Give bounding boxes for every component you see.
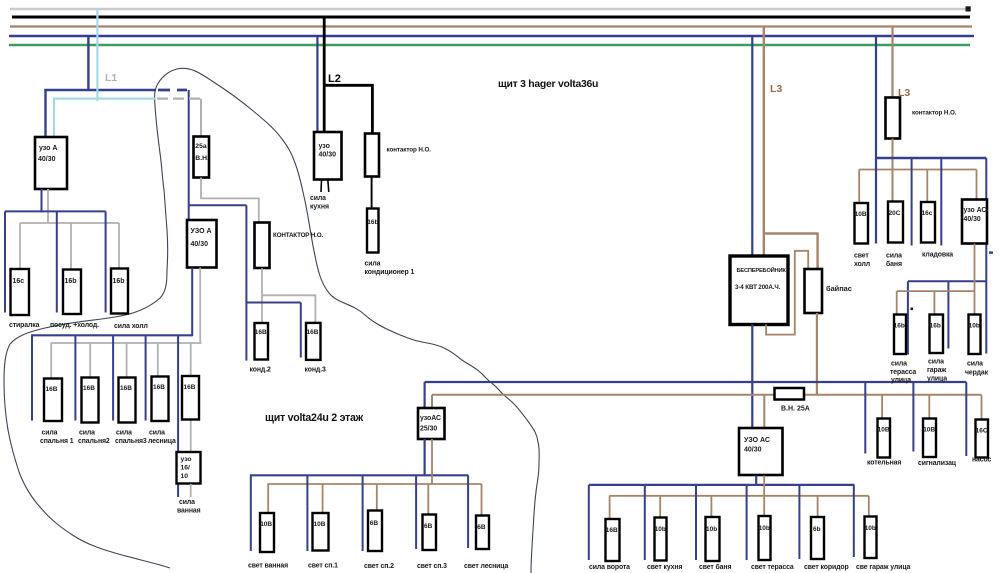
svg-text:свет баня: свет баня — [699, 563, 731, 571]
breaker 16B конд.2 — [250, 323, 272, 374]
wire blue UPS to UZO AC — [751, 325, 753, 429]
contactor KONTAKTOR N.O. — [255, 223, 324, 269]
breaker 16B ванная — [182, 376, 199, 420]
wire blue main bus 2nd floor — [425, 381, 967, 383]
wire brown baypas to bus — [816, 313, 818, 394]
svg-text:конд.3: конд.3 — [305, 367, 327, 374]
wire black L2 branch — [324, 85, 372, 133]
wire brown L3 to baypas — [764, 234, 818, 270]
wire lightblue drop from gray bus — [96, 9, 98, 101]
wire brown kontaktor2 out — [892, 139, 894, 202]
svg-text:40/30: 40/30 — [191, 241, 209, 248]
contactor контактор Н.О. (L2) — [365, 134, 431, 177]
RCD узоАС 25/30 — [418, 408, 445, 439]
svg-text:сила: сила — [891, 361, 907, 368]
svg-text:10: 10 — [181, 473, 189, 480]
wire brown groupB drop 1 — [896, 291, 898, 314]
wire brown uzoAC40 out — [763, 476, 765, 517]
wire blue row1 bus — [5, 210, 106, 212]
svg-text:кладовка: кладовка — [922, 252, 953, 259]
wire brown L3-2 drop — [891, 27, 893, 98]
svg-text:16с: 16с — [13, 278, 25, 285]
svg-text:10b: 10b — [706, 526, 717, 533]
svg-text:свет сп.2: свет сп.2 — [364, 563, 394, 570]
bus brown — [10, 25, 972, 27]
breaker 10B свет сп.1 — [308, 513, 338, 570]
svg-text:свет терасса: свет терасса — [751, 564, 794, 571]
wire gray row1 drop 2 — [70, 223, 72, 270]
breaker 16B сила спальня2 — [78, 378, 110, 446]
breaker 16B сила ворота — [589, 519, 630, 571]
wire pins uzo кухня — [321, 180, 329, 192]
svg-text:10В: 10В — [314, 521, 326, 528]
svg-text:16/: 16/ — [181, 465, 191, 472]
svg-text:сигнализац: сигнализац — [918, 460, 957, 467]
svg-text:40/30: 40/30 — [38, 156, 56, 163]
wire blue bottom drop 5 — [798, 485, 800, 559]
wire brown uzoAC25 feed — [431, 395, 433, 408]
svg-text:улица: улица — [927, 376, 947, 383]
wire blue kond feed horizontal — [189, 204, 247, 206]
svg-text:све гараж улица: све гараж улица — [856, 564, 911, 571]
svg-text:6В: 6В — [370, 520, 379, 527]
svg-text:20С: 20С — [889, 210, 901, 217]
svg-text:L3: L3 — [770, 83, 782, 95]
wire blue groupC drop 1 — [864, 382, 866, 454]
wire blue dashed across cloud — [158, 89, 187, 92]
svg-text:10b: 10b — [865, 525, 876, 532]
svg-text:сила: сила — [310, 195, 326, 202]
wire blue row2 drop 5 — [177, 335, 179, 497]
wire brown uzoAC-TR out — [974, 244, 976, 315]
svg-text:узо АС: узо АС — [964, 207, 987, 214]
breaker 6b свет коридор — [804, 517, 849, 571]
wire blue lighting drop 4 — [415, 475, 417, 549]
svg-text:сила: сила — [967, 361, 983, 368]
wire blue lighting drop 1 — [250, 475, 252, 551]
wire brown groupC drop 1 — [881, 395, 883, 419]
wire brown UPS out loop — [766, 251, 808, 335]
bus L black — [12, 16, 970, 19]
breaker 16b сила холл — [111, 269, 148, 331]
svg-text:16В: 16В — [46, 386, 58, 393]
svg-text:6В: 6В — [477, 524, 486, 531]
svg-text:котельная: котельная — [867, 460, 901, 467]
svg-text:узо: узо — [319, 143, 330, 150]
wire blue lighting drop 5 — [467, 475, 469, 548]
svg-text:свет коридор: свет коридор — [804, 564, 849, 571]
wire blue uzoAC25 feed — [424, 382, 426, 408]
wire blue row2 drop 3 — [112, 335, 114, 420]
svg-text:сила: сила — [928, 359, 944, 366]
wire blue groupA bus — [876, 157, 986, 159]
svg-text:L2: L2 — [328, 73, 341, 85]
wire brown lighting drop 1 — [267, 484, 269, 513]
wire black L2 drop — [323, 17, 326, 132]
wire brown groupC drop 3 — [981, 395, 983, 420]
svg-text:сила: сила — [149, 430, 165, 437]
wire gray row1 drop 3 — [118, 223, 120, 269]
svg-text:контактор Н.О.: контактор Н.О. — [912, 110, 957, 117]
wire blue drop to groupA — [875, 36, 877, 244]
wire blue lighting bus 2nd floor — [250, 474, 468, 476]
wire blue groupA drop 3 — [940, 158, 942, 246]
svg-text:6В: 6В — [424, 523, 433, 530]
wire blue drop from bus to L1 — [87, 36, 89, 91]
svg-text:свет ванная: свет ванная — [248, 563, 288, 570]
RCD uzo 16/10 ванная — [177, 452, 201, 484]
svg-text:10В: 10В — [260, 521, 272, 528]
wire brown groupA drop 1 — [858, 170, 860, 204]
stray blue dash — [989, 251, 993, 253]
bus green (PE) — [9, 44, 970, 47]
wire brown UZO AC feed — [763, 395, 765, 428]
svg-text:3-4 КВТ 200А.Ч.: 3-4 КВТ 200А.Ч. — [735, 284, 781, 291]
breaker 16C насос — [972, 420, 992, 464]
wire blue drop to uzo A 1 — [44, 89, 46, 137]
breaker 16c кладовка — [921, 202, 953, 259]
wire gray row2 drop 5 — [190, 343, 192, 376]
wire gray kond branch — [262, 295, 315, 323]
svg-text:узо А: узо А — [39, 145, 57, 152]
wire gray uzo2 out — [199, 268, 201, 344]
svg-text:спальня 1: спальня 1 — [40, 438, 74, 445]
svg-text:10В: 10В — [855, 211, 867, 218]
svg-text:контактор Н.О.: контактор Н.О. — [387, 147, 432, 154]
svg-text:16с: 16с — [922, 210, 933, 217]
svg-text:БЕСПЕРЕБОЙНИК: БЕСПЕРЕБОЙНИК — [737, 266, 787, 274]
RCD УЗО АС 40/30 center — [739, 428, 783, 475]
wire blue lighting drop 3 — [362, 475, 364, 551]
breaker 6B свет лесница — [464, 516, 508, 571]
svg-text:спальня2: спальня2 — [78, 438, 110, 445]
wire brown groupA bus — [859, 169, 976, 171]
bus blue — [9, 35, 974, 38]
wire blue row1 drop 1 — [4, 211, 6, 312]
label сила кондиционер 1 — [365, 261, 415, 277]
wire brown bottom drop 1 — [609, 496, 611, 519]
wire blue drop to UPS — [751, 36, 753, 256]
svg-text:сила: сила — [886, 253, 902, 260]
breaker 16b посудомойка и холодильник — [50, 270, 99, 330]
svg-text:40/30: 40/30 — [319, 152, 337, 159]
breaker 16B конд.3 — [305, 323, 327, 374]
svg-text:холл: холл — [854, 261, 870, 268]
wire gray kontaktor out — [261, 268, 263, 323]
wire blue row2 drop 4 — [145, 335, 147, 420]
svg-text:16В: 16В — [606, 527, 618, 534]
wire brown groupB drop 2 — [933, 291, 935, 314]
breaker 10b свет гараж улица — [856, 517, 911, 572]
svg-text:6b: 6b — [813, 526, 821, 533]
breaker 16B сила спальня3 — [115, 378, 147, 446]
wire gray dashed across cloud — [157, 97, 200, 99]
breaker 25a V.N. — [194, 137, 210, 178]
svg-text:спальня3: спальня3 — [115, 438, 147, 445]
wire blue groupB bus — [908, 280, 986, 282]
wire brown L3 drop to UPS — [763, 27, 765, 257]
wire blue row1 drop 3 — [105, 211, 107, 312]
svg-text:сила: сила — [79, 430, 95, 437]
breaker 16B сила спальня 1 — [40, 379, 74, 446]
wire blue kond horizontal 2 — [246, 302, 300, 304]
wire lightblue horizontal — [53, 97, 155, 99]
svg-text:свет сп.1: свет сп.1 — [308, 563, 338, 570]
svg-text:25/30: 25/30 — [420, 426, 437, 433]
svg-text:свет кухня: свет кухня — [647, 564, 682, 571]
wire blue row2 bus — [31, 334, 192, 336]
wire brown groupA drop 3 — [926, 170, 928, 203]
wire gray row2 drop 1 — [50, 343, 52, 379]
svg-text:улица: улица — [891, 377, 911, 384]
svg-text:лесница: лесница — [148, 438, 176, 445]
wire brown uzoAC25 out — [431, 439, 433, 484]
wire gray uzo16 pin — [190, 484, 192, 497]
svg-text:16В: 16В — [255, 329, 267, 336]
wire blue row1 drop 2 — [56, 211, 58, 312]
svg-text:10b: 10b — [759, 525, 770, 532]
breaker V.N. 25A — [775, 388, 810, 413]
breaker 20C сила баня — [886, 202, 903, 269]
breaker 10b свет кухня — [647, 518, 682, 572]
breaker 6B свет сп.2 — [364, 511, 394, 571]
wire blue bottom drop 1 — [588, 485, 590, 560]
svg-text:кондиционер 1: кондиционер 1 — [365, 269, 415, 276]
svg-text:16b: 16b — [65, 278, 77, 285]
wire brown groupC drop 2 — [928, 395, 930, 419]
svg-text:сила ворота: сила ворота — [589, 564, 630, 571]
breaker 6B свет сп.3 — [417, 515, 447, 571]
wire blue groupA drop 2 — [911, 158, 913, 246]
wire brown bottom bus — [610, 495, 869, 497]
svg-text:16В: 16В — [153, 384, 165, 391]
svg-text:40/30: 40/30 — [744, 447, 762, 454]
svg-text:В.Н. 25А: В.Н. 25А — [781, 406, 810, 413]
bus N (gray) top — [10, 8, 968, 11]
label сила ванная — [177, 499, 201, 515]
svg-text:10b: 10b — [655, 526, 666, 533]
bypass байпас box — [805, 269, 852, 313]
svg-text:свет лесница: свет лесница — [464, 563, 508, 570]
wire gray row1 bus — [20, 222, 119, 224]
svg-text:стиралка: стиралка — [9, 322, 40, 329]
svg-text:16b: 16b — [894, 323, 905, 330]
wire blue bottom drop 4 — [746, 485, 748, 560]
wire blue kond vertical — [245, 205, 247, 360]
svg-text:сила: сила — [42, 430, 58, 437]
wire blue drop to UZO A 2 — [188, 90, 190, 220]
svg-text:25a: 25a — [195, 143, 207, 150]
svg-text:10В: 10В — [923, 427, 935, 434]
svg-text:10В: 10В — [878, 427, 890, 434]
wire blue bottom drop 2 — [644, 485, 646, 560]
bus N end dot — [966, 6, 971, 11]
svg-text:L1: L1 — [105, 72, 117, 84]
wire brown lighting drop 4 — [427, 484, 429, 515]
wire brown bottom drop 4 — [817, 496, 819, 517]
wire gray 16B-5 to uzo16/10 — [190, 420, 192, 453]
RCD узо АС 40/30 top right — [962, 200, 987, 244]
breaker 10b свет терасса — [751, 516, 794, 571]
wire black kontaktor to 16b — [371, 177, 373, 209]
svg-text:16В: 16В — [184, 384, 196, 391]
RCD uzo A 40/30 #1 — [35, 137, 67, 189]
RCD UZO A 40/30 #2 — [187, 220, 217, 268]
wire gray drop to 25a VN — [200, 99, 202, 137]
svg-text:16b: 16b — [113, 278, 125, 285]
breaker 10B свет ванная — [248, 513, 288, 570]
wire brown groupA drop 4 — [976, 170, 978, 200]
wire gray row2 drop 4 — [157, 343, 159, 377]
wire blue bottom drop 3 — [695, 485, 697, 560]
svg-text:В.Н.: В.Н. — [195, 155, 209, 162]
svg-text:байпас: байпас — [826, 284, 852, 293]
wire brown lighting drop 3 — [376, 484, 378, 511]
wire blue uzo2 out — [191, 268, 193, 337]
wire gray row2 drop 3 — [126, 343, 128, 378]
svg-text:10b: 10b — [969, 323, 980, 330]
breaker 10B свет холл — [854, 203, 870, 268]
wire blue uzoAC40 out — [755, 476, 757, 486]
svg-text:свет: свет — [854, 253, 869, 260]
label сила кухня — [310, 195, 329, 211]
svg-text:терасса: терасса — [890, 369, 916, 376]
wire brown lighting drop 2 — [322, 484, 324, 513]
wire brown bottom drop 2 — [659, 496, 661, 518]
breaker 10B сигнализац — [918, 419, 957, 468]
wire brown lighting drop 5 — [481, 484, 483, 516]
wire blue row2 drop 2 — [74, 335, 76, 420]
breaker 16b сила гараж улица — [927, 315, 947, 383]
wire blue groupC drop 3 — [965, 382, 967, 456]
svg-text:свет сп.3: свет сп.3 — [417, 563, 447, 570]
wire blue row2 drop 1 — [31, 335, 33, 420]
wire brown bus left of VN — [432, 394, 775, 396]
RCD uzo 40/30 кухня — [314, 132, 342, 180]
svg-text:чердак: чердак — [965, 370, 989, 377]
svg-text:16b: 16b — [930, 323, 941, 330]
svg-text:насос: насос — [972, 457, 992, 464]
wire gray row2 bus — [51, 342, 202, 344]
svg-text:щит volta24u 2 этаж: щит volta24u 2 этаж — [265, 412, 364, 424]
svg-text:посуд. +холод.: посуд. +холод. — [50, 322, 99, 329]
wire brown bottom drop 5 — [868, 496, 870, 517]
svg-text:УЗО А: УЗО А — [191, 228, 212, 235]
svg-text:16С: 16С — [976, 428, 988, 435]
svg-text:узо: узо — [181, 456, 192, 463]
svg-text:16В: 16В — [307, 329, 319, 336]
wire gray 25a to kontaktor — [201, 178, 259, 223]
breaker 10b свет баня — [699, 517, 731, 571]
wire blue uzo1 out — [41, 189, 43, 213]
stray dot — [911, 308, 914, 311]
wire blue bottom drop 6 — [853, 485, 855, 557]
svg-text:щит 3 hager volta36u: щит 3 hager volta36u — [498, 79, 598, 90]
svg-text:узоАС: узоАС — [420, 415, 441, 422]
svg-text:гараж: гараж — [927, 367, 946, 374]
svg-text:баня: баня — [886, 260, 902, 268]
svg-text:16b: 16b — [367, 219, 378, 226]
wire brown bottom drop 3 — [710, 496, 712, 517]
svg-text:16В: 16В — [83, 385, 95, 392]
wire blue L1 horizontal — [44, 89, 156, 92]
wire gray row2 drop 2 — [89, 343, 91, 378]
breaker 10b сила чердак — [965, 315, 989, 377]
wire blue groupA right drop long — [985, 158, 987, 354]
wire gray uzo1 out — [47, 189, 49, 223]
contactor контактор Н.О. top right — [886, 98, 957, 139]
wire blue lighting drop 2 — [306, 475, 308, 551]
svg-text:сила холл: сила холл — [114, 323, 148, 330]
breaker 16c стиралка — [9, 269, 40, 329]
svg-text:16В: 16В — [120, 385, 132, 392]
wire brown lighting bus 2nd floor — [267, 483, 481, 485]
svg-text:КОНТАКТОР Н.О.: КОНТАКТОР Н.О. — [273, 232, 323, 239]
wire blue bottom bus — [589, 484, 855, 486]
svg-text:ванная: ванная — [177, 508, 201, 515]
svg-text:кухня: кухня — [310, 204, 329, 211]
wire blue L2 drop — [316, 36, 318, 132]
wire lightblue drop to uzo A 1 — [53, 99, 55, 137]
wire blue groupB drop 2 — [947, 281, 949, 348]
wire blue groupC drop 2 — [912, 382, 914, 452]
svg-text:сила: сила — [116, 430, 132, 437]
boundary cloud щит volta24u — [4, 68, 539, 573]
svg-text:УЗО АС: УЗО АС — [744, 437, 770, 444]
breaker 10B котельная — [867, 419, 901, 467]
svg-text:сила: сила — [179, 499, 195, 506]
svg-text:40/30: 40/30 — [964, 216, 981, 223]
svg-text:сила: сила — [365, 261, 381, 268]
wire blue uzoAC25 out — [424, 439, 426, 475]
wire brown bus right of VN — [804, 394, 982, 396]
wire brown groupB bus — [897, 290, 975, 292]
breaker 16B сила лесница — [148, 377, 176, 446]
svg-text:конд.2: конд.2 — [250, 367, 272, 374]
wire gray row1 drop 1 — [19, 223, 21, 269]
UPS бесперебойник box — [730, 256, 788, 325]
wire blue groupB drop 1 — [907, 281, 909, 354]
wire blue kond drop 3 — [300, 303, 302, 358]
breaker 16b сила терасса улица — [890, 315, 916, 385]
breaker 16b кондиционер — [367, 209, 379, 253]
